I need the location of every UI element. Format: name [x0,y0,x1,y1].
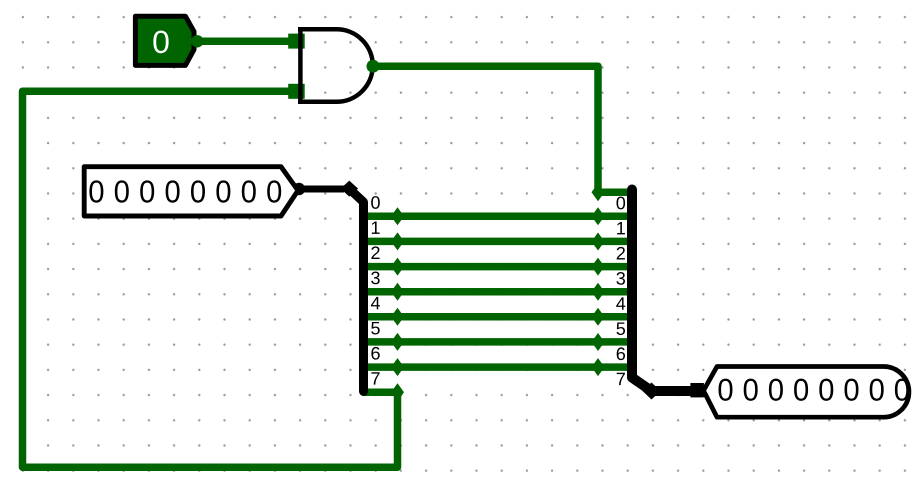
wire W2: feedback loop from AND input 2 left, down, along bottom, up to splitter bit 7 [23,91,398,467]
splitter S2 pin label 6 [617,347,625,360]
junction diamonds, right column [592,183,605,376]
junction diamond, left splitter bit 7 [391,383,404,401]
splitter S1 pin label 5 [371,322,380,335]
splitter S2 pin label 2 [617,247,625,260]
splitter S1 origin diamond [341,181,359,197]
input pin X0 (1-bit, value 0) body [135,16,194,65]
wire bit row 6: left splitter bit 6 to right splitter bit 7 [363,363,631,371]
junction diamond, right splitter bit 7 [592,358,605,376]
wire bit row 1: left splitter bit 1 to right splitter bit 2 [363,238,631,246]
bus wire from input pin A to splitter S1 origin [299,186,344,193]
junction diamond, right splitter bit 5 [592,308,605,326]
junction diamond, right splitter bit 6 [592,333,605,351]
splitter S2 bit labels 0-7 [616,197,625,385]
splitter S2 spine [632,190,690,392]
junction diamond, left splitter bit 1 [391,232,404,250]
AND gate U1 body [298,29,373,102]
input pin A value digits 00000000 [89,180,281,202]
input pin A port dot [293,183,305,195]
splitter S2 origin diamond [643,383,661,400]
wire bit row 3: left splitter bit 3 to right splitter bit 4 [363,288,631,296]
splitter S1 pin label 0 [371,196,380,209]
wire bit row 5: left splitter bit 5 to right splitter bit 6 [363,338,631,346]
junction diamond, left splitter bit 0 [391,207,404,225]
junction diamond, right splitter bit 0 [592,183,605,201]
splitter S1 bit labels 0-7 [371,196,380,384]
wire bit row 4: left splitter bit 4 to right splitter bit 5 [363,313,631,321]
splitter S2 pin label 1 [617,222,625,234]
junction diamond, left splitter bit 2 [391,258,404,276]
wire bit 7 stub from left splitter [363,388,398,396]
junction diamond, right splitter bit 2 [592,233,605,251]
input pin A (8-bit) body [84,167,298,216]
splitter S1 pin label 4 [371,297,380,309]
AND gate output port dot [367,60,380,73]
splitter S1 pin label 1 [372,221,380,233]
wire W1: pin X0 output to AND input 1 [197,38,296,46]
AND gate input port squares [288,34,305,49]
junction diamond, right splitter bit 1 [592,207,605,225]
output pin Q value digits 00000000 [718,379,908,401]
splitter S2 pin label 0 [616,197,625,210]
splitter S1 pin label 3 [371,272,380,285]
pin X0 value text 0 [153,31,168,54]
wire bit row 0: left splitter bit 0 to right splitter bit 1 [363,213,631,221]
junction diamond, left splitter bit 3 [391,283,404,301]
junction diamond, left splitter bit 6 [391,358,404,376]
splitter S1 spine [350,189,364,392]
junction diamond, left splitter bit 5 [391,333,404,351]
output pin Q (8-bit) body [704,367,909,418]
wire W3: AND output right, down, to right splitter bit 0 [373,66,630,192]
splitter S2 pin label 3 [616,272,625,285]
splitter S2 pin label 5 [617,322,626,335]
output pin Q port square [690,383,704,397]
junction diamonds, left column [391,207,404,401]
splitter S1 pin label 7 [371,372,379,384]
junction diamond, right splitter bit 3 [592,258,605,276]
splitter S2 pin label 4 [616,297,625,309]
wire bit row 2: left splitter bit 2 to right splitter bit 3 [363,263,631,271]
pin X0 output port dot [191,35,203,47]
junction diamond, right splitter bit 4 [592,283,605,301]
splitter S1 pin label 2 [371,246,379,259]
splitter S1 pin label 6 [371,347,379,360]
junction diamond, left splitter bit 4 [391,308,404,326]
splitter S2 pin label 7 [617,373,625,385]
